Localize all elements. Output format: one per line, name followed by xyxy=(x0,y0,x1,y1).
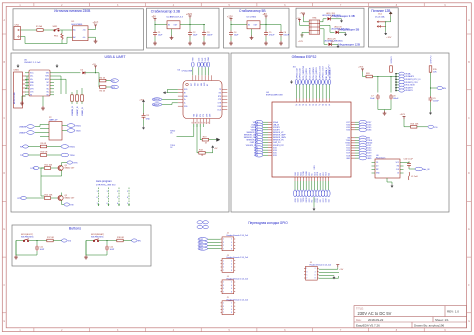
svg-text:R10 0R: R10 0R xyxy=(41,152,48,154)
net port U6 D+ xyxy=(152,98,162,101)
wire diode right xyxy=(85,69,99,73)
svg-text:IO5_VSPICS0: IO5_VSPICS0 xyxy=(303,65,305,79)
svg-text:3V3: 3V3 xyxy=(199,58,201,61)
svg-text:USB1: USB1 xyxy=(14,70,20,72)
svg-text:C10 0.1uF: C10 0.1uF xyxy=(404,159,414,161)
net port gpio b xyxy=(198,241,208,244)
resistor R12 xyxy=(44,197,50,200)
svg-text:RTS: RTS xyxy=(18,198,23,200)
junction U2 out2 xyxy=(203,24,204,25)
svg-text:R4 1K: R4 1K xyxy=(100,77,106,79)
svg-text:IO5: IO5 xyxy=(320,199,322,202)
svg-text:IO23: IO23 xyxy=(298,172,300,176)
wire N xyxy=(21,37,73,44)
svg-text:IO22: IO22 xyxy=(300,172,302,176)
svg-text:IO17: IO17 xyxy=(323,172,325,176)
diode D4 xyxy=(82,71,85,74)
ground arrow 12V xyxy=(385,32,387,36)
svg-text:RTS: RTS xyxy=(200,114,202,117)
U6 bottom pin names inside xyxy=(194,113,212,117)
svg-text:IO36: IO36 xyxy=(346,130,350,132)
wire module out bottom xyxy=(88,37,96,39)
svg-text:TXD0: TXD0 xyxy=(76,131,82,133)
junction U3 out xyxy=(265,24,266,25)
svg-text:IO4: IO4 xyxy=(328,199,330,202)
offpage arrow right xyxy=(217,138,220,141)
svg-text:HLK-PM05: HLK-PM05 xyxy=(72,24,83,26)
gpio connector J2 xyxy=(221,237,236,251)
cap C4 xyxy=(229,31,233,37)
section box buttons xyxy=(12,225,151,266)
svg-text:IO26: IO26 xyxy=(273,155,277,157)
power flag +5V box1 xyxy=(94,25,97,28)
svg-text:10uF: 10uF xyxy=(234,34,239,36)
section box 12V xyxy=(368,8,398,47)
svg-text:GPIO17_IO17: GPIO17_IO17 xyxy=(323,65,325,79)
ESP32 module U4 body xyxy=(272,102,351,177)
IC U6 pin1 mark xyxy=(186,83,189,86)
wire +3V3 to bead xyxy=(363,72,367,77)
svg-text:+3V3: +3V3 xyxy=(400,114,406,116)
svg-text:GPIO16_IO16: GPIO16_IO16 xyxy=(319,65,321,79)
svg-text:IO19: IO19 xyxy=(314,198,316,202)
svg-text:CS: CS xyxy=(376,162,378,164)
wire RTS to R12 xyxy=(26,197,44,199)
ESP32 top pin labels (vertical nets) xyxy=(296,65,331,79)
svg-text:USBDP: USBDP xyxy=(19,133,27,135)
svg-text:IO13_MTCK: IO13_MTCK xyxy=(310,67,312,79)
svg-text:R232: R232 xyxy=(45,79,49,81)
U6 right pin names xyxy=(218,89,222,111)
svg-text:R17 0R: R17 0R xyxy=(47,237,54,239)
svg-text:U2 AMS1117-3.3: U2 AMS1117-3.3 xyxy=(167,16,184,19)
net port TXLED xyxy=(111,79,119,83)
svg-text:24: 24 xyxy=(296,104,298,106)
svg-text:R12 10K: R12 10K xyxy=(45,195,53,197)
wire U2 gnd xyxy=(171,29,173,36)
svg-text:UD-: UD- xyxy=(30,79,33,81)
wire R15 down xyxy=(431,72,438,96)
RX row wire a xyxy=(28,146,40,148)
wire U6 rts down xyxy=(197,124,199,153)
wire U3 gnd xyxy=(251,29,253,36)
svg-text:S8050 J3Y: S8050 J3Y xyxy=(65,197,75,199)
wire C10 xyxy=(404,162,416,170)
junction bead a xyxy=(377,76,378,77)
wire R5 to port xyxy=(106,86,111,88)
IC CH340 U5 xyxy=(29,70,50,96)
varistor RV1 xyxy=(61,34,63,40)
resistor R16 xyxy=(411,126,417,129)
P2 pins right xyxy=(62,126,67,131)
net port EN right xyxy=(437,86,443,89)
svg-text:IO14_MTMS: IO14_MTMS xyxy=(313,67,315,79)
svg-text:GND: GND xyxy=(314,165,316,170)
svg-text:100nF: 100nF xyxy=(283,34,289,36)
junction key2 xyxy=(106,240,107,241)
cap C12 xyxy=(105,245,109,251)
svg-text:USBDP_R: USBDP_R xyxy=(77,106,79,116)
net port EN btn xyxy=(132,239,138,242)
svg-text:VDDA: VDDA xyxy=(405,72,411,75)
TX row wire b xyxy=(47,154,61,156)
resistor R5 xyxy=(100,86,106,89)
wire R18 to port xyxy=(123,240,131,242)
svg-text:CP2102-GMR: CP2102-GMR xyxy=(182,71,193,73)
ground C4 xyxy=(229,41,233,45)
wire U6 txd to left xyxy=(177,124,194,136)
spare net ports pair row2 xyxy=(197,225,203,228)
svg-text:RXD0: RXD0 xyxy=(306,198,308,203)
net port gpio c xyxy=(198,244,208,247)
svg-text:14: 14 xyxy=(305,104,307,106)
frame row ticks right xyxy=(467,34,472,313)
svg-text:C13: C13 xyxy=(146,115,149,117)
svg-text:TXD0: TXD0 xyxy=(303,172,305,176)
net port USBDM xyxy=(27,125,35,129)
cap C8 xyxy=(389,94,393,100)
flash pin names xyxy=(376,162,380,175)
svg-text:USBDM: USBDM xyxy=(153,99,160,101)
ESP32 bottom pin wires xyxy=(295,181,329,190)
svg-text:VDDA3P3: VDDA3P3 xyxy=(405,75,414,78)
RX row wire b xyxy=(47,146,61,148)
svg-text:+3V3: +3V3 xyxy=(186,13,192,16)
svg-text:IO26: IO26 xyxy=(199,248,203,250)
svg-text:IO18: IO18 xyxy=(317,172,319,176)
U6 top wires xyxy=(193,67,209,75)
svg-text:+5V: +5V xyxy=(296,18,300,20)
cap C1 xyxy=(153,31,157,37)
svg-text:VDD3P3: VDD3P3 xyxy=(405,90,412,92)
ground C3 xyxy=(202,41,206,45)
junction box3 in xyxy=(230,24,231,25)
wire +3V3 to RN1 xyxy=(304,17,310,22)
wire RN1 to LED3 xyxy=(320,29,328,45)
svg-text:IO36: IO36 xyxy=(367,130,371,132)
svg-text:+3V3: +3V3 xyxy=(358,67,364,69)
svg-text:RST: RST xyxy=(191,83,193,86)
flash pins left xyxy=(372,163,376,174)
svg-text:VDDA: VDDA xyxy=(253,121,259,124)
wire IC txd xyxy=(54,72,81,74)
U6 left pin names xyxy=(184,89,188,108)
cap C13 xyxy=(142,113,146,119)
frame column ticks top xyxy=(34,3,424,7)
ESP32 bottom pin stubs xyxy=(295,177,329,181)
RX row: net port left xyxy=(23,145,29,148)
TX row: net port left xyxy=(23,153,29,156)
svg-text:13: 13 xyxy=(312,104,314,106)
U6 top net ports xyxy=(192,62,210,67)
ESP32 top pin names inside xyxy=(296,104,331,106)
svg-text:100nF: 100nF xyxy=(433,100,439,102)
wire ports to P2 xyxy=(35,125,44,137)
svg-text:DTR RTS-->EN IO0: DTR RTS-->EN IO0 xyxy=(96,183,116,186)
section box 3V3 xyxy=(147,8,220,48)
J2 left wires xyxy=(208,239,221,248)
svg-text:U3 L7805: U3 L7805 xyxy=(247,17,257,19)
svg-text:D+: D+ xyxy=(184,99,186,101)
ground arrow LED2 xyxy=(344,32,346,36)
ground J6 arrow xyxy=(333,276,335,280)
svg-text:TITLE:: TITLE: xyxy=(356,306,364,310)
junction box5 xyxy=(385,21,386,22)
svg-text:EasyEDA V5.7.26: EasyEDA V5.7.26 xyxy=(356,323,380,327)
svg-text:VDD3V3: VDD3V3 xyxy=(391,57,393,64)
flash pins right xyxy=(400,163,404,174)
svg-text:Date:: Date: xyxy=(356,319,362,322)
wire C6 gnd xyxy=(280,37,282,42)
svg-text:+12V: +12V xyxy=(227,16,233,19)
gpio connector J4 xyxy=(221,280,236,294)
CH340 pins left xyxy=(25,73,29,95)
title block drawnby divider xyxy=(411,322,413,328)
power flag +3V3 box2 xyxy=(189,16,192,19)
power flag +3V3 ind xyxy=(302,14,305,17)
wires R6-R8 bottoms xyxy=(72,101,82,104)
svg-text:IO15_MTDO: IO15_MTDO xyxy=(316,67,318,79)
svg-text:GND: GND xyxy=(367,158,372,160)
net port TXD0 b xyxy=(61,153,69,157)
wire R16 to port xyxy=(417,126,428,128)
svg-text:100nF: 100nF xyxy=(207,34,213,36)
svg-text:CH340C 1.1.1uF: CH340C 1.1.1uF xyxy=(24,62,41,64)
frame row letters right xyxy=(468,19,470,323)
junction U2 out xyxy=(189,24,190,25)
wire U6 dec lower xyxy=(143,119,145,126)
auto program line 2 xyxy=(108,188,110,205)
resistor network RN1 xyxy=(309,20,320,34)
svg-text:TXD0: TXD0 xyxy=(70,155,76,157)
junction key1 xyxy=(36,240,37,241)
svg-text:USBDM_R: USBDM_R xyxy=(72,106,74,116)
wire C5 gnd xyxy=(265,37,267,42)
inductor L1 xyxy=(408,172,410,180)
resistor R14 vertical xyxy=(390,66,393,72)
U6 bottom pin numbers xyxy=(192,122,210,124)
wire Q2 collector xyxy=(41,193,62,197)
net port U6 D- xyxy=(152,103,162,106)
svg-text:USBDP: USBDP xyxy=(153,104,160,106)
wire bead to header xyxy=(372,77,396,93)
svg-text:S8050 J3Y: S8050 J3Y xyxy=(65,167,75,169)
svg-text:IO21: IO21 xyxy=(309,198,311,202)
ESP32 left pin names inside xyxy=(273,121,287,157)
svg-text:MICRO-USB: MICRO-USB xyxy=(14,92,16,104)
svg-text:USBDM: USBDM xyxy=(19,127,27,129)
wire Q1 emitter xyxy=(41,168,62,196)
svg-text:Header-Female 2.54_2x4: Header-Female 2.54_2x4 xyxy=(310,263,331,266)
resistor R10 xyxy=(40,154,46,157)
resistor R13 xyxy=(199,152,205,155)
ground USB xyxy=(20,101,24,105)
frame column numbers top xyxy=(19,5,446,7)
svg-text:+3V3: +3V3 xyxy=(139,99,143,101)
transistor Q2 xyxy=(57,195,63,200)
wire R11 to Q1 xyxy=(51,167,58,169)
auto program line 4 xyxy=(128,188,130,205)
svg-text:100nF: 100nF xyxy=(393,98,399,100)
gnd arrow module bottom xyxy=(313,207,315,211)
fuse F1 xyxy=(37,29,43,32)
wire C11 gnd xyxy=(16,251,37,255)
svg-text:VDD3P3: VDD3P3 xyxy=(405,87,412,89)
svg-text:-Vo: -Vo xyxy=(83,37,86,39)
frame column numbers bottom xyxy=(19,330,446,332)
IC U6 QFP body xyxy=(183,81,222,119)
wire usb gnd xyxy=(22,96,26,101)
svg-text:104P: 104P xyxy=(110,249,115,251)
svg-text:CN1: CN1 xyxy=(15,25,20,27)
wire box5 vertical xyxy=(386,16,391,32)
wire +3V3 io0 xyxy=(404,119,411,127)
svg-text:29: 29 xyxy=(302,104,304,106)
auto program values row2 xyxy=(97,197,130,199)
power flag +3V3 io0 xyxy=(403,116,406,119)
svg-text:3V3: 3V3 xyxy=(202,58,204,61)
wire caps to gnd xyxy=(378,100,391,111)
power net bus wire xyxy=(396,74,399,91)
svg-text:Обвязка ESP32: Обвязка ESP32 xyxy=(292,55,317,59)
wire key2 left gnd xyxy=(86,241,93,256)
resistor R15 vertical xyxy=(429,66,432,72)
ESP32 top net ports xyxy=(295,80,331,85)
ground IC xyxy=(41,106,45,110)
LED3 xyxy=(329,41,334,47)
svg-text:Питание 12В: Питание 12В xyxy=(371,9,390,13)
resistor R18 xyxy=(117,239,123,242)
svg-text:23: 23 xyxy=(315,104,317,106)
power flag +5V J6 xyxy=(336,265,339,268)
wire DTR to R11 xyxy=(39,167,45,169)
net port IO0 xyxy=(428,125,434,128)
svg-text:TXD0: TXD0 xyxy=(303,198,305,203)
ground key2 xyxy=(84,255,88,259)
ground arrow U6 dec xyxy=(142,126,144,130)
power flag +12V ind xyxy=(301,35,304,38)
section box USB UART xyxy=(11,53,229,212)
wire +12V to RN1 xyxy=(302,32,309,37)
svg-text:R11 10K: R11 10K xyxy=(45,165,53,167)
resistor R8 vertical xyxy=(81,95,84,101)
svg-text:IO12_MTDI: IO12_MTDI xyxy=(306,68,308,79)
svg-text:G: G xyxy=(3,321,5,323)
ground C1 xyxy=(153,41,157,45)
power flag +5V box3 xyxy=(265,16,268,19)
svg-text:Индикация 5В: Индикация 5В xyxy=(340,27,360,31)
button KEY1 xyxy=(23,239,29,242)
svg-text:Buttons: Buttons xyxy=(69,227,81,231)
svg-text:Drawn By: amyboy196: Drawn By: amyboy196 xyxy=(414,323,445,327)
ESP32 left net ports xyxy=(255,120,263,157)
wires R6-R8 tops xyxy=(72,88,82,95)
power flag top right xyxy=(56,64,58,68)
junction EN xyxy=(430,87,431,88)
title block row divider 2 xyxy=(354,321,467,323)
svg-text:IO18: IO18 xyxy=(317,198,319,202)
cap C11 xyxy=(35,245,39,251)
svg-text:SW1: SW1 xyxy=(53,26,59,28)
U6 left wires xyxy=(162,89,178,104)
wire U6 dtr down xyxy=(200,124,202,140)
svg-text:R18 0R: R18 0R xyxy=(117,237,124,239)
ground flash arrow xyxy=(391,184,393,188)
auto program values row3 xyxy=(97,203,130,205)
wire key1 right xyxy=(29,241,47,246)
frame row ticks left xyxy=(2,34,6,313)
power flag +3V3 esp top xyxy=(361,69,364,72)
wire flash gnd xyxy=(387,178,392,184)
svg-text:Переходная колодка GPIO: Переходная колодка GPIO xyxy=(248,221,288,225)
svg-text:VDD_SDIO: VDD_SDIO xyxy=(405,85,415,87)
svg-text:RXD0: RXD0 xyxy=(70,147,76,149)
wire USB to IC xyxy=(26,76,28,88)
svg-text:IO5: IO5 xyxy=(320,173,322,176)
gpio connector J6 xyxy=(304,266,319,280)
svg-text:IO23: IO23 xyxy=(298,198,300,202)
wire RN1 to LED2 xyxy=(320,25,335,32)
power net ovals xyxy=(399,72,405,92)
TX row wire a xyxy=(28,154,40,156)
svg-text:IO16: IO16 xyxy=(326,198,328,202)
svg-text:RTS: RTS xyxy=(218,96,221,98)
regulator U3 xyxy=(247,21,260,29)
svg-text:IO17: IO17 xyxy=(323,198,325,202)
ESP32 right net labels xyxy=(367,122,372,160)
svg-text:230V AC to DC 5V: 230V AC to DC 5V xyxy=(358,311,392,316)
svg-text:V3: V3 xyxy=(30,94,32,96)
cap C9 xyxy=(429,96,433,102)
svg-text:VDD3P3_RTC_IO: VDD3P3_RTC_IO xyxy=(405,79,421,81)
resistor R6 vertical xyxy=(71,95,74,101)
LED1 xyxy=(328,15,333,21)
power flag +5V ind xyxy=(298,19,301,22)
section box ESP32 xyxy=(231,53,449,212)
power net labels xyxy=(405,72,421,92)
ground arrow LED1 xyxy=(340,19,342,23)
wire L xyxy=(21,29,37,31)
wire RN1 to LED1 xyxy=(320,19,327,22)
net port gpio d xyxy=(198,247,208,250)
wire Q1 collector xyxy=(62,163,67,166)
wire R4 to port xyxy=(106,80,111,82)
AC-DC module U1 xyxy=(73,26,89,41)
ESP32 bottom pin names inside xyxy=(295,171,331,175)
svg-text:31: 31 xyxy=(329,104,331,106)
power bus junctions xyxy=(395,73,396,91)
svg-text:16: 16 xyxy=(309,104,311,106)
svg-text:Индикация 3.3В: Индикация 3.3В xyxy=(333,14,355,18)
svg-text:R16 10K: R16 10K xyxy=(411,124,419,126)
svg-text:DTR: DTR xyxy=(31,168,36,170)
ESP32 bottom net labels xyxy=(295,198,331,203)
title block row divider 1 xyxy=(354,316,467,318)
U6 top net labels xyxy=(193,56,211,61)
net port RXD0 b xyxy=(61,145,69,149)
svg-text:GPIO2_IO2: GPIO2_IO2 xyxy=(296,67,298,78)
ground key1 xyxy=(14,255,18,259)
resistor R17 xyxy=(47,239,53,242)
ground C2 xyxy=(188,41,192,45)
spare net ports pair row1 xyxy=(197,221,203,224)
CH340 pin names left xyxy=(30,72,35,96)
title block outline xyxy=(354,306,467,328)
resistor R19 xyxy=(202,138,208,141)
svg-text:104P: 104P xyxy=(40,249,45,251)
svg-text:USBID_R: USBID_R xyxy=(82,107,84,116)
wire R13 right xyxy=(205,150,213,153)
